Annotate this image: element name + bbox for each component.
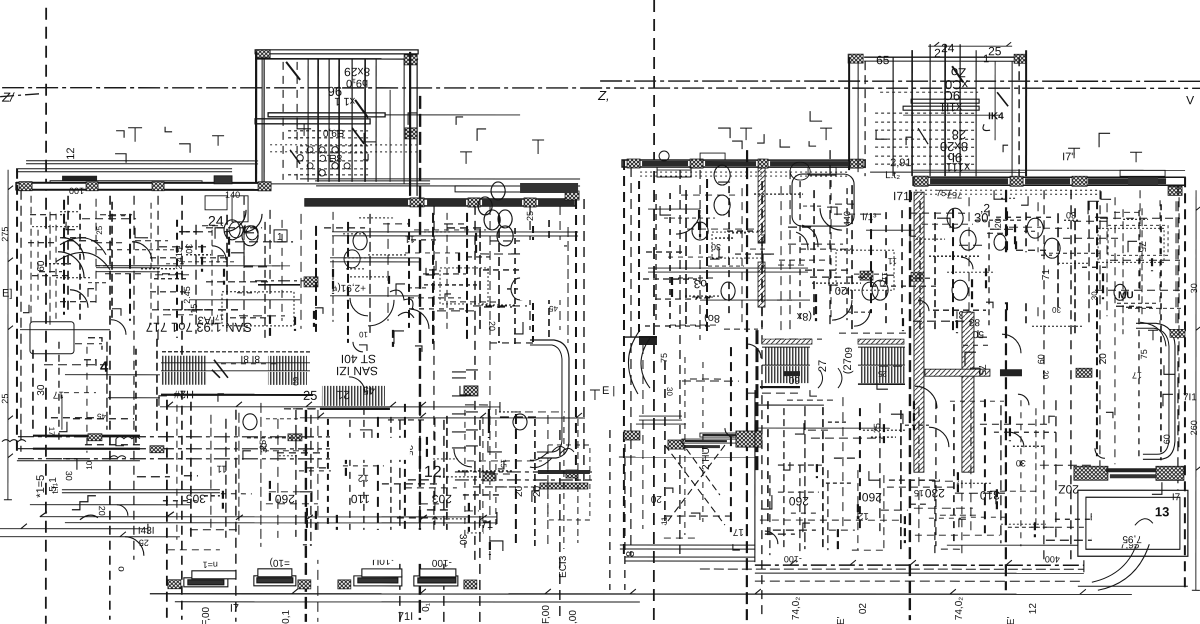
canopy line lower — [16, 168, 232, 170]
svg-text:71I: 71I — [398, 611, 413, 623]
stair verticals — [911, 50, 913, 176]
rp tread dotted rows — [875, 121, 975, 123]
left rooms furniture dashes — [37, 230, 39, 300]
hall horizontal lines — [648, 267, 808, 269]
svg-text:30: 30 — [1052, 305, 1061, 314]
installation shaft ticks — [452, 370, 478, 448]
lower dim lines left — [65, 374, 160, 376]
bottom planter blocks — [184, 569, 458, 587]
svg-text:+2,91(ᵠ: +2,91(ᵠ — [332, 282, 366, 293]
svg-text:30: 30 — [1189, 283, 1199, 293]
svg-text:260: 260 — [789, 494, 809, 508]
RP right rooms horizontal dashes — [1100, 217, 1180, 219]
svg-text:E]: E] — [2, 288, 12, 300]
terrace bottom line2 — [175, 601, 640, 603]
sofa curls right — [390, 290, 413, 310]
left plan left wall vertical — [16, 169, 18, 452]
svg-text:17: 17 — [47, 427, 56, 436]
svg-text:17: 17 — [1132, 370, 1142, 380]
svg-text:10: 10 — [359, 330, 368, 339]
svg-text:20: 20 — [97, 506, 107, 516]
door arcs — [676, 210, 700, 234]
RP stair flight hatch 2 — [765, 366, 810, 383]
svg-text:12: 12 — [65, 147, 77, 159]
svg-text:*1=5: *1=5 — [35, 475, 47, 498]
step glyph — [72, 496, 98, 520]
svg-text:x1I1: x1I1 — [939, 100, 962, 114]
corridor wall line — [96, 265, 290, 267]
canopy line upper — [26, 160, 258, 162]
svg-text:110: 110 — [350, 492, 369, 506]
text 1.42 — [173, 388, 194, 400]
room label 305 — [186, 492, 206, 506]
bed right plan — [665, 440, 725, 525]
tower inner vertical dashes — [282, 62, 284, 180]
joist dashed lines field — [30, 196, 32, 323]
stair top zigzag — [162, 351, 310, 353]
text 81 81 — [241, 353, 260, 364]
stair text 96 — [328, 84, 342, 99]
svg-text:71: 71 — [1041, 269, 1052, 281]
svg-text:757: 757 — [936, 188, 951, 198]
svg-text:H2#: H2# — [173, 388, 194, 400]
dim text 100 — [69, 186, 84, 196]
window sill right — [1120, 170, 1165, 176]
+2.91 text — [332, 282, 366, 293]
door arc kitchen — [224, 210, 246, 232]
armchair arcs left — [62, 238, 84, 260]
svg-text:8: 8 — [625, 551, 637, 557]
stair flight verticals — [317, 59, 319, 182]
tower corner hatch left — [256, 50, 270, 58]
mid bottom dashed verticals — [609, 430, 611, 590]
tower hatch right — [1014, 54, 1026, 63]
right flight hatch — [860, 347, 905, 365]
balcony hatch boxes — [88, 434, 102, 441]
text 20b upside — [951, 65, 966, 80]
stair arrows — [212, 360, 228, 378]
arc on terrace — [1135, 519, 1153, 526]
svg-text:30: 30 — [1090, 291, 1099, 300]
svg-text:2: 2 — [934, 46, 941, 60]
svg-text:45: 45 — [549, 304, 558, 313]
small bracket marks top area right — [740, 128, 1142, 162]
main wall band — [305, 199, 575, 206]
stair mid bars dark — [784, 371, 800, 376]
svg-text:45: 45 — [96, 412, 105, 421]
svg-text:5₁1: 5₁1 — [48, 477, 59, 492]
crosshatch band right — [1074, 466, 1108, 480]
text 45 — [363, 384, 375, 396]
corner bracket 4 — [84, 338, 102, 370]
svg-text:b9₁0: b9₁0 — [346, 77, 368, 89]
RP interior dashed verticals — [679, 170, 681, 560]
svg-text:IK4: IK4 — [988, 111, 1004, 122]
dim small text 100 — [784, 554, 802, 564]
svg-text:10: 10 — [85, 460, 94, 469]
rot text a — [116, 566, 127, 572]
axis vertical right — [653, 0, 655, 624]
rp extra dotted rows — [875, 112, 975, 114]
stair tower top wall — [255, 50, 418, 54]
bath texts — [842, 211, 852, 226]
bottom rotated dims — [791, 597, 802, 620]
stair text x11 — [334, 95, 355, 107]
svg-text:260: 260 — [1189, 420, 1199, 435]
text STAN2 — [195, 314, 217, 326]
tread circles extra — [332, 147, 338, 153]
SAN text — [336, 364, 378, 378]
section line Z-Z upper — [600, 80, 1200, 82]
svg-text:2.415: 2.415 — [174, 247, 184, 270]
RP stair flight hatch 1 — [765, 347, 810, 365]
landing bar lower — [255, 119, 370, 124]
terrace bottom long line — [150, 593, 1132, 596]
svg-text:25: 25 — [0, 394, 10, 404]
lower window sills — [61, 395, 63, 430]
svg-text:75: 75 — [659, 353, 669, 363]
rotated dim 2.415 — [174, 247, 184, 270]
svg-text:25: 25 — [878, 369, 887, 378]
parapet bars left — [62, 176, 97, 181]
landing edge line — [385, 114, 520, 116]
svg-text:60: 60 — [291, 377, 300, 386]
stair text oo — [346, 77, 368, 89]
RP wall hatched columns — [914, 192, 924, 472]
room label 203 — [432, 492, 452, 506]
stair bottom line — [760, 386, 800, 388]
left wing dim lines — [0, 528, 148, 530]
rot text 1,5 left — [35, 475, 47, 498]
tower hatch left — [848, 54, 863, 63]
vert text 12 — [65, 147, 77, 159]
RP left terrace lines — [620, 544, 755, 546]
stair rails — [762, 364, 810, 366]
room labels upside — [789, 494, 809, 508]
dashed partitions centre — [419, 96, 422, 620]
svg-text:=10): =10) — [270, 557, 290, 568]
svg-text:30: 30 — [665, 387, 674, 396]
lower rooms dashed walls — [166, 400, 168, 622]
svg-text:8x29: 8x29 — [344, 65, 370, 79]
canopy edge lines right section — [332, 231, 578, 233]
balcony bottom lines — [62, 489, 220, 491]
tower right wall — [1018, 57, 1020, 176]
tread dotted rows extra — [288, 130, 368, 132]
tower hatch right lower — [405, 128, 417, 139]
svg-text:20: 20 — [1041, 370, 1050, 379]
svg-text:Z,: Z, — [597, 88, 610, 103]
furniture dash rows left wing — [30, 214, 62, 216]
tower corner hatch right — [404, 55, 417, 65]
dim line y418 — [300, 417, 585, 419]
svg-text:20Z: 20Z — [1058, 482, 1079, 496]
svg-text:12: 12 — [424, 464, 442, 481]
small furniture row under top wall — [205, 196, 227, 210]
svg-text:74,0₂: 74,0₂ — [791, 597, 802, 620]
elbow marks — [245, 225, 254, 233]
svg-text:I71: I71 — [478, 519, 493, 531]
svg-text:60: 60 — [788, 374, 800, 385]
rot text 20 — [48, 477, 59, 492]
upside text 240 — [701, 447, 712, 470]
svg-text:TA3I: TA3I — [195, 314, 217, 326]
tower left wall — [848, 57, 850, 170]
bottom dim texts — [201, 606, 212, 624]
hatch band horizontals — [925, 369, 990, 376]
svg-text:20: 20 — [487, 321, 497, 331]
right edge dim chain — [1195, 190, 1197, 590]
svg-text:25: 25 — [139, 538, 149, 548]
rp tower bottom band — [870, 171, 1026, 173]
svg-text:V: V — [1186, 93, 1194, 107]
svg-text:100: 100 — [69, 186, 84, 196]
terrace left col — [754, 390, 756, 562]
door swing arcs scatter — [353, 342, 363, 352]
svg-text:75: 75 — [1139, 349, 1149, 359]
tower left wall — [255, 52, 257, 188]
terrace rail lines — [639, 415, 682, 417]
svg-text:02: 02 — [858, 603, 869, 615]
terrace bench dark — [639, 336, 657, 345]
tower landing bars — [911, 99, 979, 103]
rp extra stair verticals — [892, 57, 894, 176]
svg-text:25: 25 — [95, 225, 104, 234]
stair text 8x29 — [344, 65, 370, 79]
RP right wall vertical — [1184, 177, 1186, 590]
tread rows dotted — [300, 145, 368, 147]
right canopy block — [455, 186, 545, 192]
svg-text:30: 30 — [259, 443, 269, 453]
tower top line — [864, 56, 1020, 58]
wavy hatch marks — [2, 437, 140, 458]
right flight bottom — [320, 408, 390, 410]
svg-text:13: 13 — [1155, 504, 1169, 519]
svg-text:(8x: (8x — [796, 310, 812, 322]
landing bar upper — [268, 113, 385, 117]
rp tower inner walls — [857, 61, 859, 172]
tub — [792, 174, 854, 226]
scattered L-brackets lower — [590, 330, 1158, 400]
svg-text:E': E' — [836, 616, 847, 624]
svg-text:11: 11 — [216, 463, 227, 474]
boxed 1 room number — [274, 230, 287, 242]
basin table — [222, 292, 294, 326]
svg-text:Z/: Z/ — [1, 90, 15, 105]
text 21 — [336, 388, 350, 402]
svg-text:F,00: F,00 — [201, 606, 212, 624]
tower mid texts — [323, 127, 345, 138]
lower flight hatch right — [268, 372, 307, 385]
tower bottom slab line2 — [255, 183, 430, 185]
svg-text:E': E' — [1006, 617, 1017, 624]
tf rotated — [50, 484, 60, 494]
shower arcs — [802, 225, 818, 247]
svg-text:E |: E | — [602, 385, 615, 397]
upper flight hatch left — [161, 356, 207, 371]
svg-text:I7": I7" — [1062, 151, 1075, 163]
wall hatch boxes — [19, 182, 32, 191]
canopy thin lines — [913, 169, 1185, 171]
ST140 text — [341, 352, 376, 366]
left top dim marks row — [128, 124, 544, 164]
tower bottom slab line — [315, 180, 430, 182]
upper flight hatch right — [268, 356, 307, 371]
hall line — [96, 267, 160, 269]
svg-text:0,1: 0,1 — [281, 609, 292, 623]
left plan right wall vertical — [575, 199, 577, 484]
svg-text:25: 25 — [872, 423, 882, 433]
right-of-left-plan dashdot rails — [455, 471, 592, 473]
tread circles — [307, 147, 313, 153]
stair diag arrow — [286, 62, 300, 80]
canopy thin double — [300, 178, 580, 180]
dim ticks — [40, 512, 497, 524]
stair mid rails — [161, 362, 310, 364]
top-left main wall — [16, 183, 270, 190]
svg-text:60: 60 — [1036, 354, 1046, 364]
closet row under wall — [712, 232, 762, 258]
tower right wall — [409, 52, 411, 196]
svg-text:7I1: 7I1 — [1183, 392, 1197, 403]
lower flight hatch left — [161, 372, 207, 385]
svg-text:SAN IZI: SAN IZI — [336, 364, 378, 378]
dark bars right — [1106, 468, 1156, 472]
rp tower top dim line — [928, 45, 1012, 47]
svg-text:2.45: 2.45 — [182, 286, 192, 304]
svg-text:17: 17 — [52, 389, 64, 400]
svg-text:305: 305 — [186, 492, 206, 506]
svg-text:15: 15 — [189, 304, 199, 314]
svg-text:8ᗺ.C: 8ᗺ.C — [319, 152, 342, 163]
diag stroke low — [352, 128, 364, 144]
shelf rows left-mid — [206, 227, 262, 229]
svg-text:8I 8I: 8I 8I — [241, 353, 260, 364]
svg-text:1: 1 — [983, 53, 989, 65]
kitchen counter bars lower — [700, 433, 755, 437]
left wing window arcs — [119, 5, 121, 7]
RP bottom right arcs — [1098, 542, 1150, 590]
terrace inner edge — [619, 456, 757, 458]
svg-text:ECI3: ECI3 — [558, 555, 569, 578]
svg-text:11: 11 — [880, 272, 889, 281]
white balance patches — [520, 240, 564, 300]
wardrobe left — [30, 322, 74, 354]
svg-text:24: 24 — [208, 213, 224, 229]
wc ovals pair — [224, 220, 240, 240]
svg-text:12: 12 — [857, 510, 869, 521]
door arcs mid — [368, 300, 394, 326]
svg-text:20: 20 — [650, 493, 662, 504]
balcony solid rails left — [33, 435, 140, 437]
bathroom partition hatched — [758, 168, 765, 243]
tower left wall inner — [263, 59, 265, 186]
bottom line ticks — [292, 589, 1086, 594]
svg-text:30: 30 — [36, 384, 47, 396]
svg-text:o: o — [116, 566, 127, 572]
svg-text:30: 30 — [1016, 458, 1026, 468]
svg-text:0₁: 0₁ — [421, 602, 432, 612]
section line Z-Z main — [2, 87, 1200, 90]
svg-text:60: 60 — [36, 260, 47, 272]
svg-text:60: 60 — [842, 347, 853, 359]
svg-text:30: 30 — [64, 471, 74, 481]
RP bottom dimension band — [755, 564, 1084, 566]
wall band — [913, 177, 1185, 185]
svg-text:20: 20 — [1098, 353, 1109, 365]
dashdot jog corridor — [255, 280, 318, 282]
svg-text:60: 60 — [1162, 434, 1172, 444]
tower diag strokes — [952, 66, 963, 82]
room label 260 — [275, 492, 295, 506]
kitchen sink top — [657, 167, 691, 177]
room label 110 — [350, 492, 369, 506]
svg-text:I7: I7 — [230, 603, 239, 615]
radiator arcs right plan — [484, 210, 513, 246]
svg-text:30: 30 — [457, 534, 468, 546]
wall fill dark segments — [305, 199, 408, 206]
svg-text:30: 30 — [184, 244, 194, 254]
svg-text:25: 25 — [525, 211, 535, 221]
STAN text — [146, 320, 252, 335]
dim line y407 — [160, 406, 500, 408]
svg-text:30: 30 — [1066, 210, 1076, 220]
planter texts — [203, 560, 218, 570]
tiny number labels — [189, 304, 199, 314]
svg-text:11: 11 — [660, 516, 669, 525]
RP wall hatch boxes — [627, 159, 640, 168]
svg-text:25: 25 — [303, 388, 317, 403]
svg-text:74,0₂: 74,0₂ — [954, 597, 965, 620]
svg-text:24: 24 — [941, 41, 955, 55]
hall horizontal lines extra — [648, 208, 700, 210]
svg-text:n=1: n=1 — [203, 560, 218, 570]
svg-text:17: 17 — [215, 313, 224, 322]
axis vertical left — [45, 8, 47, 624]
tower inner wall lines — [261, 59, 263, 184]
svg-text:F,00: F,00 — [541, 605, 552, 624]
stair text 28 — [952, 127, 966, 142]
xx mark right edge — [1170, 329, 1185, 337]
lower-left balcony dash-dot rails — [18, 436, 330, 438]
dim line 1 — [40, 516, 497, 518]
horizontal dash segments — [414, 229, 486, 231]
svg-text:21: 21 — [336, 388, 350, 402]
svg-text:11: 11 — [404, 233, 415, 244]
RP left edge arcs — [628, 330, 640, 394]
svg-text:x1 1: x1 1 — [334, 95, 355, 107]
svg-text:12: 12 — [1028, 603, 1039, 615]
svg-text:27: 27 — [817, 360, 829, 372]
svg-text:7,95: 7,95 — [1122, 533, 1142, 544]
RP right balcony rounded rail — [1136, 323, 1175, 459]
RP right terrace — [1078, 490, 1188, 556]
left edge dim chain — [7, 170, 9, 500]
svg-text:11: 11 — [888, 256, 897, 266]
svg-text:I43I: I43I — [138, 526, 155, 537]
RP central stair crosshatch band — [762, 339, 812, 344]
interior dashed partition verticals upper rooms — [67, 196, 69, 310]
terrace bottom right — [1078, 585, 1188, 587]
parapet bars mid — [50, 181, 202, 184]
wall hatch boxes — [410, 198, 424, 207]
door arc2 — [244, 214, 262, 232]
right flight hatch — [322, 386, 385, 406]
rot 8 label — [625, 551, 637, 557]
radiator top — [478, 182, 512, 228]
small window marks above — [700, 153, 725, 160]
bath fixtures: toilet — [714, 165, 730, 185]
